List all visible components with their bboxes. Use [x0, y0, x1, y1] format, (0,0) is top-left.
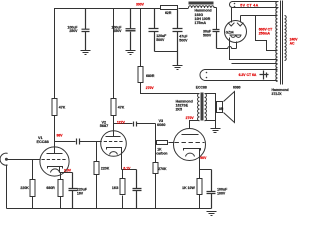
tube V1 cathode: [48, 167, 63, 169]
resistor R8 270K V3 grid leak: [155, 174, 157, 209]
wire GZ34 anode lead right: [241, 16, 278, 23]
svg-text:270V: 270V: [186, 116, 195, 120]
svg-text:500V: 500V: [156, 38, 165, 42]
wire V2 cathode lead: [122, 148, 137, 170]
tube V2 grid dashes: [99, 141, 125, 143]
resistor R3 47K V1 plate: [52, 99, 57, 116]
node 6.3V winding center tap symbol: [260, 71, 269, 80]
resistor R11 62R: [161, 6, 178, 10]
label L1 choke: [195, 9, 212, 26]
svg-text:127V: 127V: [117, 121, 126, 125]
tube V2 5687 envelope: [101, 131, 127, 157]
svg-text:680R: 680R: [46, 186, 55, 190]
capacitor C12 120uF 500V: [149, 9, 159, 52]
op-amp U1 rectifier tube GZ34 envelope: [225, 21, 247, 43]
wire V2 plate node to coupling cap 2: [114, 123, 133, 125]
wire coupling cap 2 to V3 grid node: [137, 124, 156, 163]
svg-text:270V: 270V: [146, 86, 155, 90]
wire OPT primary bottom to V3 plate: [190, 121, 200, 129]
node 5V box pin dots: [234, 3, 236, 5]
resistor R4 220K V2 grid: [96, 142, 98, 209]
capacitor C10 100uF 250V first: [82, 9, 90, 51]
wire jack sleeve down: [6, 165, 8, 209]
svg-text:250V: 250V: [113, 29, 122, 33]
svg-text:1K8: 1K8: [112, 186, 118, 190]
node heater loom 6.3V CT 6A box: [200, 70, 278, 81]
capacitor C11 100uF 250V second: [126, 9, 136, 51]
wire 270V node to output transformer: [141, 83, 200, 94]
svg-text:98V: 98V: [57, 133, 64, 137]
svg-text:1K 10W: 1K 10W: [182, 186, 195, 190]
svg-text:90V: 90V: [200, 156, 207, 160]
resistor R6 47K V2 plate: [111, 99, 116, 116]
tube V1 plate bar: [47, 153, 63, 155]
svg-text:270K: 270K: [158, 167, 167, 171]
svg-text:AC: AC: [290, 42, 295, 46]
tube V2 plate bar: [106, 136, 121, 138]
svg-text:47K: 47K: [118, 106, 125, 110]
tube V3 heater dome: [186, 153, 195, 156]
label T1 Hammond 372JX: [272, 88, 289, 96]
wire V1 plate node to coupling cap: [55, 141, 76, 143]
svg-text:47K: 47K: [59, 106, 66, 110]
resistor R1 220K V1 grid: [32, 160, 34, 209]
svg-text:2.0V: 2.0V: [64, 168, 72, 172]
transformer T1 primary winding right 240V: [285, 16, 287, 61]
tube V1 heater dome: [51, 169, 60, 173]
tube V3 grid dashes: [175, 142, 205, 144]
transformer T2 output primary winding: [198, 94, 200, 121]
svg-text:5V CT 4A: 5V CT 4A: [240, 3, 258, 7]
node heater loom 5V CT 4A box: [230, 2, 279, 8]
svg-text:6080: 6080: [233, 85, 241, 89]
speaker LS1 driver: [217, 102, 223, 113]
wire 680R rail drop: [140, 9, 142, 67]
tube V3 6080 envelope: [174, 129, 206, 161]
inductor L1 choke coil: [189, 6, 215, 8]
capacitor C2 coupling V1-V2: [77, 139, 80, 145]
wire ground bus bottom: [7, 208, 212, 210]
ground G3: [173, 66, 183, 70]
svg-text:250V: 250V: [69, 29, 78, 33]
svg-text:2K5: 2K5: [176, 108, 182, 112]
transistor Q1 GZ34 anode plates: [228, 23, 243, 26]
capacitor C13 47uF 500V: [173, 9, 183, 66]
tube V1 ECC88 envelope: [40, 147, 69, 176]
wire V1 cathode lead: [60, 167, 73, 173]
ground G5 main: [207, 212, 217, 216]
svg-text:175mA: 175mA: [195, 21, 207, 25]
tube V3 cathode: [184, 149, 201, 151]
svg-text:220K: 220K: [101, 167, 110, 171]
wire B+ rail top: [55, 8, 217, 99]
wire V2 rail drop: [113, 9, 115, 99]
label T2 Hammond 1627SE: [176, 100, 193, 112]
svg-text:500V: 500V: [179, 39, 188, 43]
tube V3 plate bar: [182, 134, 199, 136]
capacitor C3 coupling V2-V3: [134, 122, 137, 127]
wire secondary to speaker: [205, 94, 216, 121]
resistor R7 1K carbon grid stopper: [156, 142, 174, 144]
transformer T2 core: [201, 93, 204, 121]
wire cap bottoms join: [155, 51, 178, 53]
wire V2 plate lead: [113, 116, 115, 137]
svg-text:GZ34: GZ34: [226, 31, 234, 35]
wire GZ34 anode tap B staircase: [256, 16, 278, 51]
capacitor C1 220uF 16V: [69, 173, 78, 209]
node input tip dot: [5, 158, 8, 161]
wire GZ34 anode lead from 5V box: [231, 8, 233, 23]
transformer T1 power secondary winding left: [276, 2, 278, 82]
ground G1: [81, 51, 91, 55]
resistor R5 1K8 V2 cathode: [122, 170, 124, 209]
svg-text:carbon: carbon: [156, 151, 167, 155]
wire V3 cathode lead: [200, 149, 212, 179]
capacitor C14 30uF 500V: [213, 30, 220, 49]
svg-text:500V: 500V: [203, 34, 212, 38]
resistor R2 680R V1 cathode: [60, 173, 62, 209]
svg-text:ECC88: ECC88: [37, 140, 49, 144]
transformer T1 core lines: [281, 1, 283, 85]
svg-text:100V: 100V: [217, 192, 226, 196]
wire V1 plate lead: [54, 116, 56, 154]
wire GZ34 heater filament: [230, 35, 242, 37]
svg-text:250mA: 250mA: [259, 32, 271, 36]
svg-text:300V: 300V: [136, 2, 145, 6]
resistor R9 1K 10W V3 cathode: [199, 195, 201, 209]
svg-text:16V: 16V: [77, 192, 84, 196]
speaker LS1 cone: [224, 92, 235, 123]
ground G4 speaker: [211, 129, 221, 133]
svg-text:372JX: 372JX: [272, 92, 283, 96]
svg-text:6.1V: 6.1V: [123, 166, 131, 170]
ground G2: [126, 51, 136, 55]
svg-text:680R: 680R: [146, 74, 155, 78]
svg-text:ECC88: ECC88: [196, 85, 207, 89]
svg-text:6.3V CT 6A: 6.3V CT 6A: [239, 73, 257, 77]
tube V1 grid dashes: [42, 159, 67, 161]
jack J1 input: [0, 153, 8, 165]
wire speaker ground drop: [215, 121, 217, 129]
resistor R10 680R PSU dropper: [138, 67, 143, 83]
capacitor C5 100uF 100V: [207, 170, 216, 209]
wire input to V1 grid: [8, 159, 41, 161]
wire B+ to GZ34 cathode with hop: [217, 42, 237, 49]
wire coupling cap to V2 grid: [80, 141, 101, 143]
capacitor C4 V2 cathode bypass: [133, 170, 142, 209]
svg-text:62R: 62R: [165, 11, 172, 15]
node 6.3V box pin dots: [206, 72, 208, 74]
transformer T2 output secondary winding: [205, 94, 207, 121]
svg-text:5687: 5687: [100, 124, 108, 128]
wire heater pair second line: [232, 63, 278, 65]
svg-text:6080: 6080: [157, 123, 165, 127]
wire GZ34 heater pin down to winding: [230, 38, 278, 60]
inductor L1 choke core bar: [189, 2, 214, 5]
tube V2 heater dome: [110, 152, 118, 155]
tube V2 cathode: [107, 148, 122, 150]
svg-text:8R: 8R: [219, 107, 224, 111]
wire choke to reservoir cap: [216, 8, 218, 30]
svg-text:220K: 220K: [20, 186, 29, 190]
